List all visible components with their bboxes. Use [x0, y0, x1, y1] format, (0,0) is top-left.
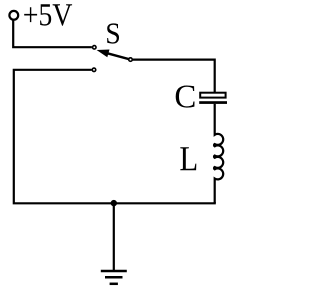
- ground stem wire: [113, 203, 115, 270]
- wire from switch pole to top-right corner and down to capacitor: [133, 60, 215, 92]
- label L: [180, 147, 196, 170]
- switch S blade with arrowhead: [107, 53, 129, 59]
- label +5V: [24, 4, 72, 26]
- capacitor C top plate: [200, 93, 225, 98]
- switch S throw contact 2: [92, 68, 96, 72]
- wire from capacitor to inductor, inductor L coil, wire to bottom-right corner: [214, 104, 223, 203]
- switch S pole contact: [129, 58, 133, 62]
- junction node on bottom wire: [111, 200, 117, 206]
- capacitor C bottom plate: [199, 101, 227, 104]
- switch S throw contact 1: [93, 46, 97, 50]
- terminal +5V: [9, 11, 18, 20]
- bottom wire from right corner to left corner, up left side to switch throw 2: [14, 70, 215, 204]
- label C: [176, 86, 195, 108]
- label S: [107, 23, 119, 43]
- ground symbol: [101, 271, 127, 284]
- wire from +5V terminal to switch throw 1: [13, 20, 92, 47]
